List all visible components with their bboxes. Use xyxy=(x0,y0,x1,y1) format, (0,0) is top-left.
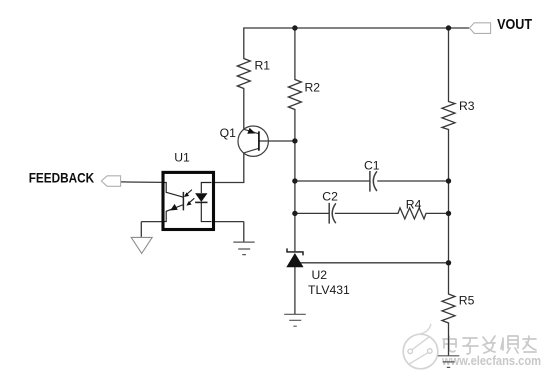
svg-text:R2: R2 xyxy=(305,80,321,94)
svg-text:C1: C1 xyxy=(364,158,380,172)
svg-text:R3: R3 xyxy=(459,99,475,113)
svg-text:C2: C2 xyxy=(322,190,338,204)
svg-text:U2: U2 xyxy=(312,268,328,282)
svg-text:Q1: Q1 xyxy=(220,126,236,140)
svg-text:R5: R5 xyxy=(459,294,475,308)
svg-text:VOUT: VOUT xyxy=(497,16,532,33)
svg-text:R1: R1 xyxy=(255,58,271,72)
svg-text:TLV431: TLV431 xyxy=(308,283,350,297)
svg-text:R4: R4 xyxy=(406,198,422,212)
svg-text:U1: U1 xyxy=(174,151,190,165)
svg-text:FEEDBACK: FEEDBACK xyxy=(29,169,95,185)
